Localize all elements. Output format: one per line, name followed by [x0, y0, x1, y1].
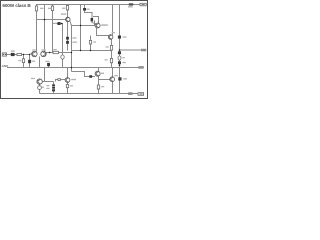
resistor Rin	[17, 53, 22, 55]
wire V120 to rail	[119, 64, 121, 67]
diode stack53 b	[52, 87, 55, 89]
resistor R111	[110, 45, 112, 50]
resistor R67	[66, 85, 68, 88]
label stack67 b value	[72, 42, 77, 43]
label D84 value	[87, 9, 90, 10]
output terminal top	[140, 3, 146, 6]
diode D120c	[118, 77, 121, 80]
wire stack53	[53, 82, 55, 85]
resistor R1	[35, 6, 37, 11]
label Q6 name	[114, 75, 118, 76]
wire diode jog	[85, 11, 93, 19]
wire R23 branch	[23, 55, 25, 59]
label Q2a name	[32, 49, 36, 50]
resistor R98	[97, 85, 99, 89]
wire QL collector	[67, 68, 69, 78]
label Rfb value	[53, 49, 56, 50]
wire LTP tail	[39, 57, 41, 68]
label stack53 left b	[46, 88, 49, 89]
transistor Q6 leads	[111, 77, 114, 82]
resistor R23	[22, 59, 24, 63]
wire V120 to bottom rail	[119, 81, 121, 94]
wire bias feed	[44, 68, 46, 82]
wire C29 bottom	[29, 63, 31, 67]
label Q4 name	[101, 73, 104, 74]
capacitor C120	[118, 61, 121, 64]
label D120c value	[123, 78, 127, 79]
transistor Q6 circle	[110, 77, 115, 82]
transistor Q5 leads	[38, 79, 41, 84]
input connector J1	[2, 53, 6, 56]
svg-text:600W class B: 600W class B	[2, 3, 31, 8]
resistor R91	[89, 40, 91, 44]
wire Q5 bottom	[39, 84, 41, 85]
wire negative rail	[40, 93, 139, 95]
label P1 value	[122, 57, 124, 58]
fuse F2 bottom	[128, 92, 133, 94]
border frame	[1, 1, 148, 99]
label QL name	[71, 79, 76, 80]
transistor Q2b circle	[41, 51, 46, 56]
wire stack53 bottom	[53, 92, 55, 94]
transistor Q2a leads	[33, 52, 36, 57]
wire R91 bottom	[90, 44, 92, 51]
wire ccs down	[52, 24, 54, 53]
label C1 value	[11, 50, 15, 51]
label stack53 left a	[46, 85, 49, 86]
fuse F1 top	[129, 3, 133, 5]
diode D95	[91, 18, 94, 21]
wire R23 bottom	[23, 63, 25, 68]
label Rb value	[105, 59, 108, 60]
wire QL base	[56, 80, 66, 82]
transistor QL circle	[65, 78, 70, 83]
capacitor C1 input	[11, 53, 15, 56]
label Q2b name	[42, 49, 46, 50]
wire Q6 collector	[112, 68, 114, 77]
diode stack67 a	[66, 37, 69, 40]
wire V120 lower diode	[119, 68, 121, 78]
transistor Q3a circle	[95, 23, 100, 28]
diode D120a	[118, 36, 121, 39]
resistor Rb	[110, 58, 112, 62]
wire ground rail	[7, 67, 138, 69]
wire Q3a emitter	[97, 28, 109, 36]
wire QL emitter	[67, 82, 69, 84]
transistor Q1 leads	[66, 17, 69, 22]
wire H2 base line	[37, 19, 66, 21]
trimmer P1 oval	[118, 56, 121, 60]
wire Q3 emitter	[111, 39, 113, 45]
transistor Q4 circle	[95, 71, 100, 76]
transistor Q5b oval	[38, 86, 42, 90]
wire Q1 emitter diode stack	[67, 22, 69, 51]
diode D120b	[118, 51, 121, 54]
transistor Q5 circle	[37, 79, 42, 84]
wire collector A	[36, 20, 38, 52]
wire R3 branch	[67, 5, 69, 18]
wire H3	[72, 21, 95, 26]
transistor Q2a circle	[32, 51, 37, 56]
wire input segment 3	[22, 53, 32, 55]
label R23 value	[18, 60, 21, 61]
wire vas base line	[72, 72, 90, 77]
wire R67 bottom	[67, 88, 69, 94]
transistor Q4 leads	[96, 72, 99, 76]
wire Q3a collector tie	[93, 17, 99, 24]
diode stack67 b	[66, 41, 69, 44]
output terminal bottom	[138, 93, 144, 96]
wire diode top branch	[84, 5, 86, 9]
wire V120 trim to cap	[119, 60, 121, 61]
diode D84	[83, 8, 86, 11]
wire lower base line	[99, 79, 110, 81]
label D57 node	[53, 23, 56, 24]
wire Rb bottom	[111, 63, 113, 68]
wire Q5 oval to rail	[39, 90, 41, 94]
transistor Q3 leads	[109, 35, 112, 39]
resistor R2	[51, 6, 53, 11]
transistor Q3 circle	[108, 35, 113, 40]
connector J1 pins	[3, 54, 4, 55]
terminal inner dash bottom	[140, 94, 143, 95]
wire Q4 collector	[98, 68, 100, 72]
wire R91 top	[90, 36, 92, 41]
resistor Rfb	[53, 51, 59, 53]
wire H4	[72, 50, 112, 52]
wire Q1 collector long	[70, 21, 72, 72]
wire C48 stub	[48, 66, 50, 67]
transistor QL leads	[66, 78, 69, 83]
output box gray	[138, 66, 144, 69]
transistor Q2b leads	[42, 52, 45, 57]
label R1 value	[40, 8, 43, 9]
wire diode89 to Q4	[92, 76, 95, 78]
wire node cfb down	[62, 59, 64, 68]
wire input segment 1	[7, 54, 11, 56]
wire V120 top	[119, 5, 121, 36]
capacitor C29	[28, 60, 31, 63]
resistor R3	[66, 6, 68, 11]
aux box gray	[141, 49, 146, 52]
wire input segment 2	[15, 54, 17, 56]
wire positive rail	[37, 5, 141, 20]
wire V120 low	[119, 54, 121, 56]
label C120 value	[122, 62, 125, 63]
transistor Q1 circle	[66, 17, 70, 21]
wire C29 branch	[29, 55, 31, 60]
label R3 value	[62, 8, 65, 9]
label F1 value	[128, 6, 133, 7]
label C48 value	[45, 61, 49, 62]
resistor RbaseQL	[58, 79, 61, 81]
wire Q4 emitter	[98, 76, 100, 85]
diode D57	[57, 22, 60, 25]
capacitor C48	[47, 63, 50, 66]
diode stack53 a	[52, 84, 55, 86]
wire V80	[80, 5, 82, 51]
label Q3a name	[101, 24, 108, 26]
label D120a value	[123, 36, 127, 37]
wire R98 bottom	[98, 89, 100, 94]
capacitor Cfb oval	[61, 55, 64, 59]
label Q3 name	[112, 32, 115, 33]
label C29 value	[32, 61, 35, 62]
wire V120 mid	[119, 39, 121, 52]
label stack67 a value	[72, 37, 76, 38]
label Q5 name	[31, 78, 35, 79]
wire feedback left	[46, 52, 53, 54]
wire diode to node	[61, 24, 63, 56]
wire Q3 collector	[112, 5, 114, 35]
junction node dots	[44, 19, 46, 21]
diode stack53 c	[52, 89, 55, 91]
transistor Q3a leads	[96, 23, 99, 28]
terminal inner dash top	[142, 4, 145, 5]
diode D89	[89, 75, 92, 78]
wire Rb top	[111, 51, 113, 59]
label R98 value	[101, 86, 104, 87]
wire aux out right	[120, 49, 142, 51]
wire feedback right	[59, 52, 72, 54]
wire R2 ccs branch	[53, 5, 58, 24]
label Q5b value	[42, 87, 44, 88]
wire Q3a link	[92, 21, 96, 24]
wire Q5 right link	[42, 81, 53, 83]
svg-text:GND: GND	[2, 64, 10, 68]
wire node A vertical	[44, 5, 46, 52]
label R2 value	[48, 8, 51, 9]
label R111 value	[106, 46, 109, 47]
wire Q6 emitter	[112, 82, 114, 94]
label R91 value	[93, 41, 96, 42]
label R67 value	[70, 85, 73, 86]
label Q1 name	[61, 13, 66, 14]
